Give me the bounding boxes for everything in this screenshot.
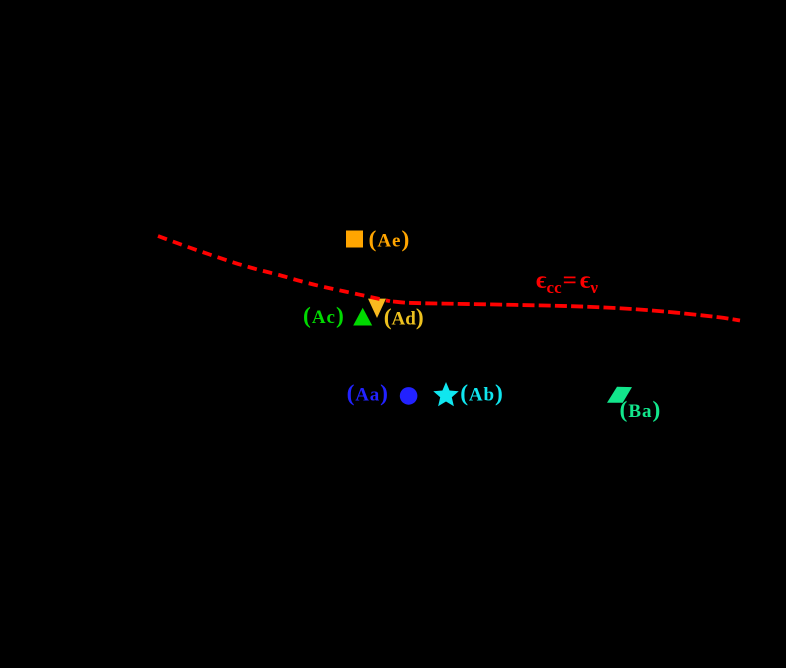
red dashed model curve (steep left branch) (158, 236, 390, 301)
svg-text:(Ae): (Ae) (369, 226, 411, 252)
marker parallelogram (Ba) (607, 387, 632, 403)
svg-text:(Ab): (Ab) (460, 380, 504, 406)
svg-text:(Ba): (Ba) (620, 397, 662, 423)
marker circle (Aa) (400, 387, 418, 405)
svg-text:ϵcc=ϵν: ϵcc=ϵν (536, 267, 598, 297)
marker star (Ab) (433, 382, 458, 406)
marker triangle-up (Ac) (353, 308, 372, 326)
red dashed model curve (flat right branch) (393, 302, 740, 321)
svg-text:(Ac): (Ac) (303, 303, 345, 329)
marker square (Ae) (346, 231, 363, 248)
svg-text:(Ad): (Ad) (384, 305, 424, 331)
marker triangle-down (Ad) (368, 299, 386, 318)
svg-text:(Aa): (Aa) (347, 380, 389, 406)
